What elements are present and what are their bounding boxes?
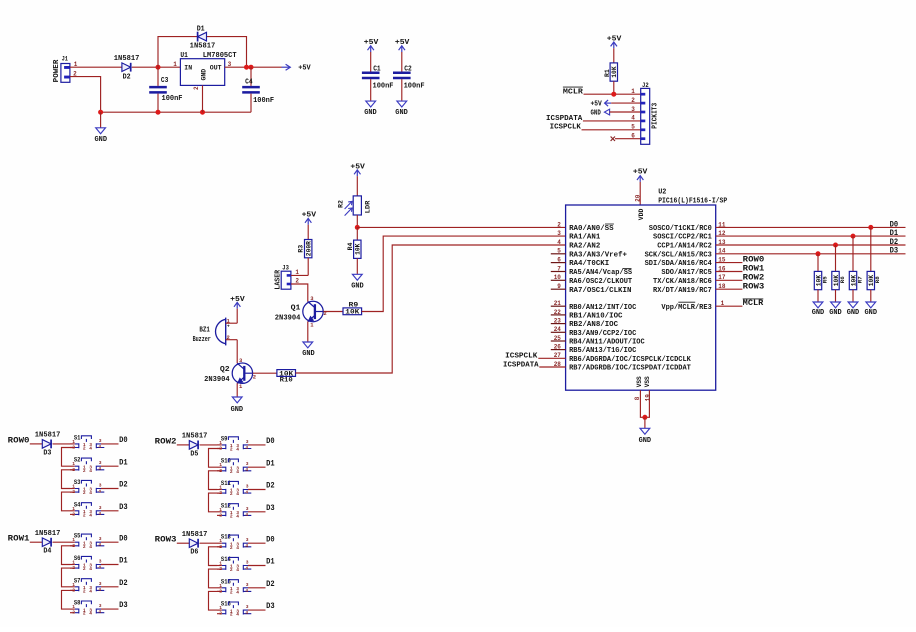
svg-text:TX/CK/AN18/RC6: TX/CK/AN18/RC6	[653, 278, 712, 286]
svg-text:ICSPCLK: ICSPCLK	[550, 124, 582, 132]
resistor R10 10K	[277, 370, 296, 377]
wire C2 to GND	[401, 79, 403, 101]
svg-text:10K: 10K	[345, 309, 359, 316]
svg-text:GND: GND	[591, 109, 601, 117]
svg-text:C4: C4	[245, 79, 253, 87]
svg-text:PIC16(L)F1516-I/SP: PIC16(L)F1516-I/SP	[658, 197, 727, 205]
diode D4 1N5817	[42, 538, 51, 547]
svg-text:4: 4	[245, 490, 248, 496]
svg-text:4: 4	[245, 512, 248, 518]
svg-text:3: 3	[99, 536, 102, 542]
switch S12	[217, 502, 266, 519]
connector J2 PICKIT3	[641, 88, 650, 144]
svg-text:2: 2	[230, 567, 233, 573]
wire D0 to R8	[870, 227, 872, 271]
svg-text:7: 7	[557, 265, 561, 272]
svg-text:D2: D2	[119, 481, 128, 490]
svg-text:U1: U1	[180, 52, 188, 60]
junction MCLR/R1	[611, 92, 616, 97]
wire R4 to GND	[356, 258, 358, 274]
svg-text:R8: R8	[874, 276, 881, 283]
svg-text:19: 19	[645, 394, 652, 402]
svg-text:3: 3	[246, 560, 249, 566]
svg-text:Q1: Q1	[291, 305, 301, 313]
wire U1 OUT to +5V	[225, 66, 282, 68]
wire S3 pin2 to S4 pin1	[62, 492, 75, 511]
svg-text:+5V: +5V	[230, 296, 245, 304]
svg-text:ROW3: ROW3	[155, 536, 177, 545]
wire D1 bypass branch	[158, 37, 247, 68]
svg-text:1: 1	[219, 507, 222, 513]
svg-text:2: 2	[83, 544, 86, 550]
+5V arrow above C1	[370, 46, 372, 52]
wire BZ1 pin1 stub	[226, 322, 238, 324]
svg-text:2: 2	[83, 611, 86, 617]
wire GND to J2 pin3	[610, 111, 641, 113]
wire net D1 from RC1	[716, 235, 906, 237]
svg-text:1: 1	[72, 537, 75, 543]
pin 25 RB4/AN11/ADOUT/IOC stub	[551, 340, 566, 342]
svg-text:R5: R5	[821, 276, 828, 283]
svg-text:C1: C1	[373, 66, 381, 74]
wire J3 pin2 to Q1 collector	[291, 284, 308, 302]
svg-text:1: 1	[219, 561, 222, 567]
svg-text:1: 1	[72, 582, 75, 588]
svg-text:4: 4	[245, 543, 248, 549]
svg-text:RB4/AN11/ADOUT/IOC: RB4/AN11/ADOUT/IOC	[569, 339, 645, 347]
wire Q1 base to R9	[323, 311, 343, 313]
svg-text:10K: 10K	[611, 66, 618, 78]
svg-text:2: 2	[230, 469, 233, 475]
svg-text:D2: D2	[890, 238, 899, 247]
svg-text:22: 22	[554, 309, 562, 316]
+5V arrow above C2	[401, 46, 403, 52]
pin 6 RA4/T0CKI stub	[551, 262, 566, 264]
svg-text:2: 2	[72, 511, 75, 517]
svg-text:3: 3	[246, 506, 249, 512]
svg-text:D0: D0	[266, 535, 275, 544]
svg-text:24: 24	[554, 326, 562, 333]
svg-text:+5V: +5V	[395, 39, 410, 47]
+5V arrow above R1	[613, 42, 615, 48]
svg-text:1N5817: 1N5817	[35, 432, 61, 440]
wire S6 pin2 to S7 pin1	[62, 568, 75, 587]
wire net ROW0 from RC4	[716, 262, 743, 264]
svg-text:1: 1	[72, 461, 75, 467]
switch S1	[70, 434, 119, 451]
svg-text:R6: R6	[839, 276, 846, 283]
svg-text:2: 2	[219, 512, 222, 518]
overline RA5 SS	[623, 267, 632, 269]
ground rail wire	[101, 111, 251, 113]
svg-text:ROW0: ROW0	[743, 256, 765, 265]
wire C1 to GND	[370, 79, 372, 101]
resistor R9 10K	[343, 308, 362, 315]
svg-text:4: 4	[89, 490, 92, 496]
svg-text:1: 1	[72, 484, 75, 490]
svg-text:1: 1	[219, 440, 222, 446]
svg-text:2: 2	[253, 373, 256, 380]
ground symbol R7	[848, 302, 858, 308]
wire VSS to GND	[644, 417, 646, 428]
pin 7 RA5/AN4/Vcap/SS stub	[551, 271, 566, 273]
svg-text:J2: J2	[642, 82, 649, 89]
pin 21 RB0/AN12/INT/IOC stub	[551, 305, 566, 307]
svg-text:D1: D1	[197, 25, 205, 33]
wire J3 pin1 stub	[291, 274, 308, 276]
svg-text:4: 4	[245, 445, 248, 451]
svg-text:6: 6	[631, 133, 635, 140]
svg-text:C3: C3	[161, 77, 169, 85]
svg-text:4: 4	[236, 589, 239, 595]
svg-text:4: 4	[245, 588, 248, 594]
svg-text:1: 1	[219, 605, 222, 611]
svg-text:GND: GND	[829, 309, 842, 317]
switch S6	[70, 555, 119, 572]
svg-text:2: 2	[83, 512, 86, 518]
wire +5V to J2 pin2	[611, 102, 641, 104]
wire J1-1 to D2 anode	[70, 66, 122, 68]
svg-text:3: 3	[99, 483, 102, 489]
svg-text:SOSCI/CCP2/RC1: SOSCI/CCP2/RC1	[653, 234, 712, 242]
svg-text:D3: D3	[890, 247, 899, 256]
ground symbol Q1	[303, 342, 313, 348]
svg-text:1N5817: 1N5817	[114, 55, 140, 63]
svg-text:OUT: OUT	[210, 64, 222, 71]
+5V arrow J2 pin2	[605, 102, 611, 104]
wire D1 to R7	[852, 236, 854, 271]
svg-text:D0: D0	[266, 437, 275, 446]
svg-text:3: 3	[246, 484, 249, 490]
junction D3/R5	[816, 251, 821, 256]
svg-text:GND: GND	[865, 309, 878, 317]
wire BZ1 pin2 to Q2 collector	[236, 340, 238, 364]
wire S10 pin2 to S11 pin1	[209, 471, 222, 490]
connector J1 POWER	[61, 64, 70, 83]
svg-text:3: 3	[557, 230, 561, 237]
svg-text:2N3904: 2N3904	[275, 315, 301, 323]
resistor R6 10K	[832, 271, 839, 289]
switch S11	[217, 480, 266, 497]
svg-text:+5V: +5V	[591, 100, 603, 108]
svg-text:2: 2	[230, 545, 233, 551]
svg-text:21: 21	[554, 300, 562, 307]
diode D2 1N5817	[122, 63, 131, 72]
svg-text:RA1/AN1: RA1/AN1	[569, 234, 600, 242]
svg-text:GND: GND	[639, 437, 652, 445]
ground symbol C1	[366, 101, 376, 107]
wire D2 to R6	[835, 245, 837, 271]
svg-text:ROW2: ROW2	[743, 273, 765, 282]
pin 22 RB1/AN10/IOC stub	[551, 314, 566, 316]
svg-text:D3: D3	[119, 503, 128, 512]
svg-text:BZ1: BZ1	[199, 326, 210, 334]
capacitor C1 100nF	[362, 72, 380, 75]
svg-text:3: 3	[246, 604, 249, 610]
svg-text:GND: GND	[302, 350, 315, 358]
svg-text:ROW2: ROW2	[155, 437, 177, 446]
wire U1 GND pin 2 to rail	[202, 85, 204, 112]
svg-text:D1: D1	[266, 558, 275, 567]
svg-text:D0: D0	[119, 436, 128, 445]
switch S9	[217, 435, 266, 452]
capacitor C4 100nF	[242, 86, 260, 89]
wire R2 to RA0 node	[356, 215, 358, 227]
svg-text:2: 2	[230, 491, 233, 497]
+5V arrow above R2 LDR	[356, 170, 358, 176]
diode D5 1N5817	[189, 441, 198, 450]
wire net D0 from RC0	[716, 226, 906, 228]
svg-text:RB0/AN12/INT/IOC: RB0/AN12/INT/IOC	[569, 304, 636, 312]
switch S2	[70, 457, 119, 474]
buzzer BZ1	[225, 318, 227, 346]
svg-text:4: 4	[89, 566, 92, 572]
pin 10 RA6/OSC2/CLKOUT stub	[551, 279, 566, 281]
svg-text:RA2/AN2: RA2/AN2	[569, 243, 600, 251]
wire net MCLR from RE3	[716, 305, 743, 307]
svg-text:+5V: +5V	[350, 163, 365, 171]
svg-text:4: 4	[245, 566, 248, 572]
svg-text:9: 9	[557, 283, 561, 290]
ground symbol C2	[397, 101, 407, 107]
svg-text:MCLR: MCLR	[743, 299, 764, 308]
svg-text:GND: GND	[812, 309, 825, 317]
svg-text:2: 2	[83, 446, 86, 452]
svg-text:U2: U2	[658, 189, 666, 197]
ground symbol R8	[866, 302, 876, 308]
switch S13	[217, 534, 266, 551]
svg-text:RA5/AN4/Vcap/SS: RA5/AN4/Vcap/SS	[569, 269, 632, 277]
svg-text:RA7/OSC1/CLKIN: RA7/OSC1/CLKIN	[569, 287, 631, 295]
svg-text:GND: GND	[395, 109, 408, 117]
svg-text:4: 4	[245, 610, 248, 616]
svg-text:ICSPCLK: ICSPCLK	[505, 353, 538, 361]
wire ROW2 to D5	[177, 444, 190, 446]
svg-text:IN: IN	[184, 64, 192, 71]
switch S10	[217, 458, 266, 475]
junction at C3/D1 tap	[156, 65, 161, 70]
svg-text:D0: D0	[890, 220, 899, 229]
svg-text:2N3904: 2N3904	[204, 376, 230, 384]
svg-text:GND: GND	[351, 283, 364, 291]
svg-text:3: 3	[99, 460, 102, 466]
svg-text:4: 4	[236, 469, 239, 475]
svg-text:4: 4	[98, 489, 101, 495]
svg-text:2: 2	[83, 468, 86, 474]
svg-text:GND: GND	[201, 69, 208, 81]
switch S7	[70, 577, 119, 594]
wire D4 to switch column	[53, 541, 70, 543]
wire S7 pin2 to S8 pin1	[62, 590, 75, 609]
svg-text:MCLR: MCLR	[563, 89, 584, 97]
svg-text:GND: GND	[364, 109, 377, 117]
svg-text:RB7/ADGRDB/IOC/ICSPDAT/ICDDAT: RB7/ADGRDB/IOC/ICSPDAT/ICDDAT	[569, 365, 691, 373]
capacitor C3 100nF	[149, 86, 167, 89]
svg-text:R9: R9	[349, 301, 359, 308]
svg-text:+5V: +5V	[607, 35, 622, 43]
wire node to R4	[356, 227, 358, 240]
svg-text:4: 4	[98, 466, 101, 472]
svg-text:4: 4	[98, 542, 101, 548]
svg-text:4: 4	[245, 467, 248, 473]
wire D3 to R5	[817, 254, 819, 272]
svg-text:J1: J1	[62, 55, 68, 62]
wire D3 to switch column	[53, 443, 70, 445]
wire S14 pin2 to S15 pin1	[209, 569, 222, 588]
svg-text:D5: D5	[190, 450, 198, 458]
wire C4 bottom to rail	[250, 94, 252, 113]
svg-text:ICSPDATA: ICSPDATA	[546, 115, 583, 123]
wire net D3 from RC3	[716, 253, 906, 255]
svg-text:3: 3	[246, 461, 249, 467]
svg-text:D1: D1	[890, 229, 899, 238]
svg-text:D1: D1	[119, 458, 128, 467]
svg-text:D2: D2	[119, 579, 128, 588]
svg-text:4: 4	[236, 545, 239, 551]
wire net ROW1 from RC5	[716, 271, 743, 273]
svg-text:VSS: VSS	[644, 376, 651, 387]
junction D1/R7	[851, 234, 856, 239]
wire D6 to switch column	[200, 542, 217, 544]
svg-text:23: 23	[554, 318, 562, 325]
svg-text:SDI/SDA/AN16/RC4: SDI/SDA/AN16/RC4	[645, 260, 712, 268]
wire C3 top	[157, 67, 159, 86]
wire S5 pin2 to S6 pin1	[62, 546, 75, 565]
svg-text:100nF: 100nF	[253, 97, 274, 105]
svg-text:C2: C2	[404, 66, 412, 74]
svg-text:2: 2	[72, 610, 75, 616]
svg-text:1: 1	[219, 485, 222, 491]
svg-text:ICSPDATA: ICSPDATA	[503, 361, 539, 369]
svg-text:1: 1	[219, 462, 222, 468]
svg-text:RB6/ADGRDA/IOC/ICSPCLK/ICDCLK: RB6/ADGRDA/IOC/ICSPCLK/ICDCLK	[569, 356, 692, 364]
wire +5V to VDD pin20	[639, 182, 641, 205]
IC U2 PIC16(L)F1516-I/SP	[566, 205, 716, 390]
svg-text:R4: R4	[347, 242, 354, 250]
ground symbol R5	[813, 302, 823, 308]
svg-text:RA0/AN0/SS: RA0/AN0/SS	[569, 225, 614, 233]
svg-text:ROW1: ROW1	[8, 535, 30, 544]
svg-text:4: 4	[236, 447, 239, 453]
svg-text:1N5817: 1N5817	[182, 531, 208, 539]
svg-text:RX/DT/AN19/RC7: RX/DT/AN19/RC7	[653, 287, 712, 295]
wire MCLR to J2 pin1	[584, 93, 641, 95]
svg-text:10: 10	[554, 274, 562, 281]
ground symbol R4	[352, 274, 362, 280]
svg-text:1: 1	[631, 88, 635, 95]
svg-text:ROW3: ROW3	[743, 282, 765, 291]
transistor Q2 2N3904	[232, 363, 252, 383]
resistor R1 10K	[610, 63, 617, 81]
svg-text:2: 2	[230, 612, 233, 618]
svg-text:100nF: 100nF	[404, 83, 425, 91]
resistor R7 10K	[849, 271, 856, 289]
svg-text:+5V: +5V	[298, 65, 311, 73]
+5V arrow above R3	[307, 218, 309, 224]
wire net ROW2 from RC6	[716, 279, 743, 281]
wire +5V to C1	[370, 52, 372, 72]
svg-text:2: 2	[193, 86, 200, 90]
svg-text:5: 5	[631, 124, 635, 131]
svg-text:+: +	[227, 324, 230, 329]
svg-text:D2: D2	[266, 580, 275, 589]
svg-text:R1: R1	[604, 69, 611, 77]
wire Q2 emitter to GND	[236, 383, 238, 397]
wire ROW3 to D6	[177, 542, 190, 544]
ground symbol U2	[640, 428, 650, 434]
junction rail/C3	[156, 110, 161, 115]
svg-text:D3: D3	[266, 602, 275, 611]
resistor R4 10K	[354, 240, 361, 258]
svg-text:D4: D4	[43, 548, 51, 556]
wire R8 to GND	[870, 290, 872, 302]
svg-text:RA4/T0CKI: RA4/T0CKI	[569, 260, 609, 268]
svg-text:LASER: LASER	[274, 269, 282, 289]
svg-text:25: 25	[554, 335, 562, 342]
wire ICSPCLK to J2 pin5	[582, 129, 641, 131]
svg-text:RA3/AN3/Vref+: RA3/AN3/Vref+	[569, 251, 627, 259]
svg-text:PICKIT3: PICKIT3	[652, 103, 660, 129]
svg-text:10K: 10K	[355, 243, 362, 255]
svg-text:+5V: +5V	[633, 169, 648, 177]
svg-text:2: 2	[230, 513, 233, 519]
svg-text:3: 3	[99, 559, 102, 565]
junction LDR/R4/RA0	[355, 225, 360, 230]
svg-text:VDD: VDD	[638, 209, 645, 221]
svg-text:2: 2	[83, 588, 86, 594]
svg-text:4: 4	[98, 565, 101, 571]
svg-text:4: 4	[236, 491, 239, 497]
+5V supply arrow (output)	[282, 66, 290, 68]
svg-text:D2: D2	[266, 482, 275, 491]
svg-text:RB1/AN10/IOC: RB1/AN10/IOC	[569, 313, 622, 321]
wire R5 to GND	[817, 290, 819, 302]
svg-text:3: 3	[99, 603, 102, 609]
svg-text:D3: D3	[266, 504, 275, 513]
wire S1 pin2 to S2 pin1	[62, 448, 75, 467]
svg-text:2: 2	[230, 589, 233, 595]
svg-text:R2: R2	[337, 200, 344, 208]
svg-text:2: 2	[219, 611, 222, 617]
diode D3 1N5817	[42, 440, 51, 449]
overline Vpp MCLR	[678, 301, 695, 303]
wire S15 pin2 to S16 pin1	[209, 591, 222, 610]
svg-text:2: 2	[83, 490, 86, 496]
svg-text:6: 6	[557, 257, 561, 264]
svg-text:3: 3	[246, 582, 249, 588]
wire Q2 base to R10	[253, 372, 277, 374]
svg-text:Vpp/MCLR/RE3: Vpp/MCLR/RE3	[661, 304, 711, 312]
wire LDR node to PIC RA0 pin2	[357, 226, 565, 228]
overline RA0 SS	[605, 223, 614, 225]
wire BZ1 pin2 stub	[226, 339, 238, 341]
svg-text:3: 3	[99, 581, 102, 587]
svg-text:2: 2	[557, 221, 561, 228]
no-connect cross J2 pin6	[611, 137, 615, 141]
switch S5	[70, 533, 119, 550]
svg-text:3: 3	[246, 537, 249, 543]
junction D0/R8	[868, 225, 873, 230]
svg-text:3: 3	[246, 439, 249, 445]
svg-text:26: 26	[554, 344, 562, 351]
svg-text:POWER: POWER	[53, 59, 61, 83]
svg-text:D1: D1	[266, 459, 275, 468]
switch S3	[70, 479, 119, 496]
wire +5V to R1	[613, 48, 615, 63]
svg-text:ROW0: ROW0	[8, 436, 30, 445]
diode D1 1N5817 (reverse protection)	[197, 32, 199, 42]
transistor Q1 2N3904	[303, 301, 323, 321]
